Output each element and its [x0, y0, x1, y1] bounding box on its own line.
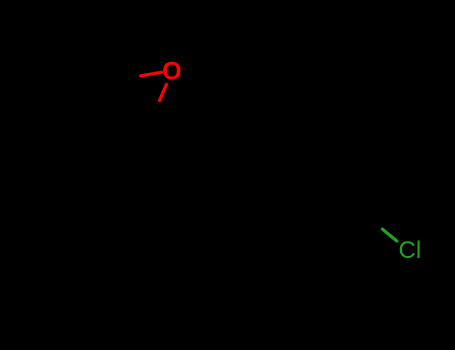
wire: epoxide C-O bond (left, red half) [141, 72, 162, 76]
svg-text:O: O [162, 58, 181, 86]
wire: C-Cl bond (green half) [383, 229, 397, 241]
wire: epoxide C-O bond (lower-left diagonal, red half) [160, 85, 167, 101]
svg-text:Cl: Cl [399, 237, 422, 264]
